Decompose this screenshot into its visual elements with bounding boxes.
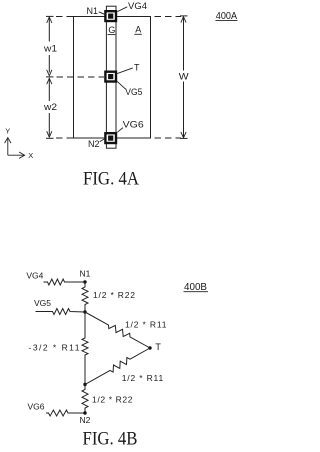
svg-text:VG5: VG5 [34, 298, 51, 308]
svg-text:VG5: VG5 [125, 87, 142, 97]
resistor R_VG4 1/2*R22 feed (VG4 to N1) [44, 279, 86, 285]
node J1 (junction) [83, 310, 86, 313]
resistor R_VG6 feed (VG6 to N2) [46, 410, 85, 416]
node N2 [83, 411, 86, 414]
svg-text:N2: N2 [80, 415, 91, 425]
dashed extension line bottom-left [56, 137, 74, 139]
dimension w1 [46, 15, 54, 17]
node N1 label [99, 12, 105, 14]
node J2 (junction) [83, 383, 86, 386]
dimension W [180, 15, 188, 17]
svg-text:T: T [134, 63, 140, 73]
resistor 1/2*R11 (J2 to T, lower diagonal) [85, 348, 150, 385]
resistor -3/2*R11 (J1 to J2) [82, 312, 88, 385]
svg-text:A: A [135, 24, 141, 34]
svg-text:1/2 * R11: 1/2 * R11 [122, 373, 164, 383]
contact VG6 (bottom square) [105, 133, 116, 143]
svg-text:w1: w1 [43, 44, 57, 54]
svg-text:1/2 * R11: 1/2 * R11 [125, 320, 167, 330]
svg-text:FIG. 4A: FIG. 4A [83, 168, 139, 189]
svg-text:N2: N2 [88, 139, 100, 149]
net VG4 label [117, 7, 127, 12]
dimension w2 [47, 78, 52, 84]
svg-text:VG6: VG6 [28, 402, 45, 412]
svg-text:VG4: VG4 [26, 270, 43, 280]
svg-text:W: W [179, 72, 189, 82]
svg-text:VG4: VG4 [128, 1, 147, 11]
svg-text:VG6: VG6 [123, 119, 144, 129]
resistor R_VG5 feed (VG5 to J1) [36, 309, 86, 315]
svg-text:G: G [108, 25, 115, 35]
dashed extension line top-right [155, 16, 182, 18]
gate bar G [106, 6, 116, 148]
svg-text:1/2 * R22: 1/2 * R22 [93, 290, 135, 300]
node N2 label [100, 139, 105, 142]
svg-text:1/2 * R22: 1/2 * R22 [92, 395, 133, 405]
dashed extension line bottom-right [155, 137, 182, 139]
resistor 1/2*R11 (J1 to T, upper diagonal) [85, 312, 150, 348]
dashed extension line top-left [56, 16, 74, 18]
dashed extension line middle [57, 76, 105, 78]
svg-text:N1: N1 [87, 6, 99, 16]
svg-text:X: X [28, 151, 33, 160]
net VG6 label [117, 128, 123, 133]
axis Y [7, 138, 9, 156]
axis X [8, 154, 25, 156]
svg-text:Y: Y [5, 127, 10, 136]
svg-text:N1: N1 [80, 269, 91, 279]
svg-text:FIG. 4B: FIG. 4B [83, 429, 138, 450]
svg-text:w2: w2 [43, 102, 57, 112]
resistor 1/2*R22 (N1 to J1) [82, 282, 88, 312]
node N1 [83, 280, 86, 283]
svg-text:T: T [155, 342, 161, 352]
contact T/VG5 (middle square) [105, 72, 116, 82]
contact VG4 (top square) [105, 11, 116, 21]
resistor 1/2*R22 (J2 to N2) [82, 385, 88, 414]
region A rectangle [74, 17, 151, 139]
net VG5 label [117, 81, 126, 89]
svg-text:-3/2 * R11: -3/2 * R11 [29, 343, 80, 353]
node T [148, 346, 151, 349]
node T label [117, 68, 133, 74]
